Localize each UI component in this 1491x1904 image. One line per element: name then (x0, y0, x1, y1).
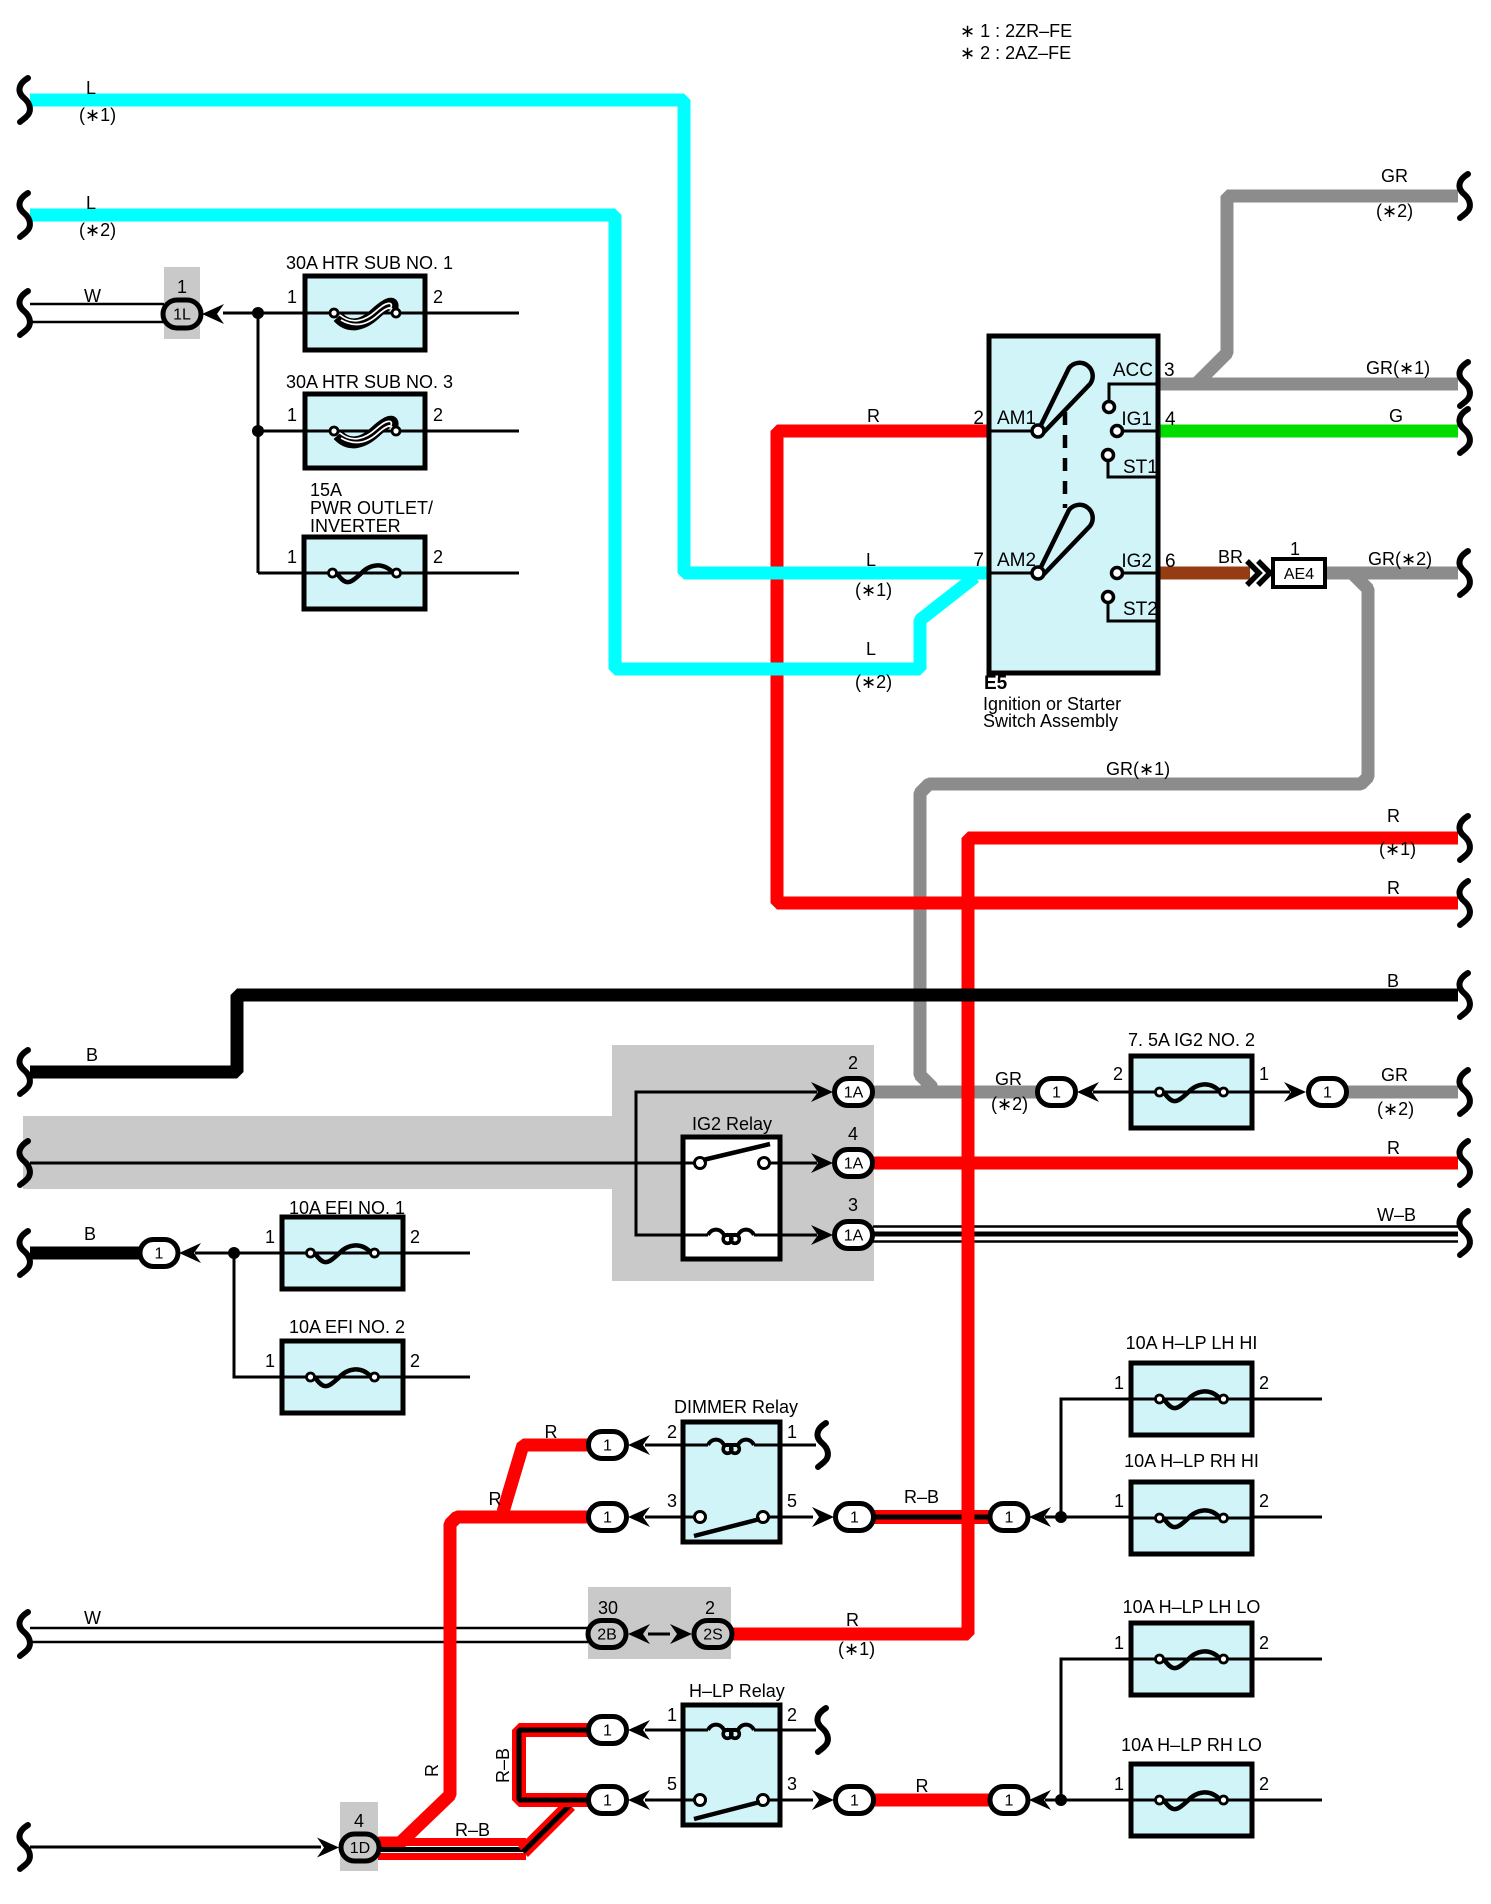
svg-text:B: B (1387, 971, 1399, 991)
arrow into connector 1D (317, 1838, 339, 1858)
svg-text:GR(∗1): GR(∗1) (1366, 358, 1430, 378)
svg-text:B: B (84, 1224, 96, 1244)
harness end W top (19, 291, 29, 335)
wire long line into IG2 relay contact (pin 4 path) (30, 1162, 683, 1165)
svg-text:AM1: AM1 (997, 408, 1036, 429)
connector 1L (163, 300, 201, 328)
svg-text:2: 2 (667, 1422, 677, 1442)
connector AE4 (1273, 559, 1325, 587)
svg-text:(∗1): (∗1) (838, 1639, 875, 1659)
relay H-LP Relay (683, 1705, 780, 1825)
connector 1 (GR *2 right) (1309, 1079, 1347, 1106)
connector 1 (R-B to fuses) (990, 1504, 1028, 1531)
wire fuse EFI NO.2 output (402, 1376, 470, 1379)
connector 1 (GR *2 left) (1038, 1079, 1076, 1106)
switch movable contact AM2 (1040, 505, 1093, 573)
wire 7.5A fuse pin 2 lead (1093, 1091, 1131, 1094)
junction-block shading band (left) (23, 1116, 612, 1189)
wire H-LP relay pin 3 lead (780, 1799, 813, 1802)
switch ACC terminal (1109, 384, 1158, 402)
svg-text:R: R (916, 1776, 929, 1796)
svg-text:L: L (866, 550, 876, 570)
svg-text:R: R (422, 1764, 442, 1777)
svg-text:15A: 15A (310, 480, 342, 500)
wire R-B from DIMMER relay pin 5 (872, 1510, 991, 1524)
svg-text:2: 2 (410, 1227, 420, 1247)
wire H-LP relay pin 5 lead (645, 1799, 683, 1802)
svg-text:30A HTR SUB NO. 3: 30A HTR SUB NO. 3 (286, 372, 453, 392)
harness end R (1459, 881, 1469, 925)
svg-text:2: 2 (1259, 1373, 1269, 1393)
svg-text:1: 1 (1114, 1633, 1124, 1653)
svg-text:10A H–LP LH LO: 10A H–LP LH LO (1123, 1597, 1261, 1617)
svg-text:R–B: R–B (455, 1820, 490, 1840)
svg-text:2: 2 (433, 287, 443, 307)
wire GR(*1) branch down to IG2 relay pin 2 (920, 573, 1368, 1092)
wire 7.5A fuse pin 1 lead (1252, 1091, 1290, 1094)
svg-text:GR(∗2): GR(∗2) (1368, 549, 1432, 569)
junction (HTR branch top) (252, 307, 264, 319)
svg-text:2: 2 (433, 547, 443, 567)
wire fuse HTR SUB NO.3 output (425, 430, 519, 433)
wire branch down to fuse EFI NO.2 (234, 1253, 282, 1377)
svg-text:4: 4 (848, 1124, 858, 1144)
fuse 10A EFI NO. 1 (282, 1217, 403, 1289)
svg-text:1: 1 (1005, 1793, 1014, 1810)
harness end G (1459, 409, 1469, 453)
wire fuse H-LP LH HI output (1252, 1398, 1322, 1401)
svg-text:2: 2 (1259, 1491, 1269, 1511)
fuse 30A HTR SUB NO. 3 (305, 394, 425, 468)
harness end B EFI (19, 1231, 29, 1275)
svg-text:2: 2 (1259, 1774, 1269, 1794)
svg-text:1: 1 (603, 1723, 612, 1740)
wire IG2 relay pin 2 branch (636, 1092, 817, 1235)
arrow into connector 2B (628, 1624, 650, 1644)
wire B to fuse EFI connector 1 (30, 1247, 142, 1260)
svg-text:2: 2 (1259, 1633, 1269, 1653)
wire to fuse H-LP RH LO with branch to LH LO (1045, 1659, 1131, 1800)
wire GR (*2) branch up to top right edge (1196, 196, 1458, 384)
wire to fuse H-LP RH HI with branch to LH HI (1045, 1399, 1131, 1517)
svg-text:3: 3 (848, 1195, 858, 1215)
wire from connector 1L to fuse HTR SUB NO.1 (223, 312, 305, 315)
svg-text:ST2: ST2 (1123, 599, 1158, 620)
svg-text:R: R (867, 406, 880, 426)
fuse 10A H-LP LH LO (1131, 1623, 1252, 1695)
svg-text:1: 1 (1290, 539, 1300, 559)
svg-text:GR(∗1): GR(∗1) (1106, 759, 1170, 779)
svg-text:1: 1 (667, 1705, 677, 1725)
svg-text:30: 30 (598, 1598, 618, 1618)
wire L (*2) from left edge to ignition switch AM2 (30, 215, 975, 669)
harness end R mid (1459, 1141, 1469, 1185)
svg-text:R: R (545, 1422, 558, 1442)
svg-text:(∗2): (∗2) (1377, 1099, 1414, 1119)
svg-text:2: 2 (848, 1053, 858, 1073)
wire GR between IG2 relay pin 2 and connector 1 (872, 1086, 1038, 1099)
arrow into connector 2S (670, 1624, 692, 1644)
wire R-B loop H-LP relay pins 1 and 5 (519, 1730, 589, 1800)
svg-text:2: 2 (973, 408, 984, 429)
wire between connectors 2B and 2S (648, 1633, 670, 1636)
svg-text:∗ 2 : 2AZ–FE: ∗ 2 : 2AZ–FE (960, 43, 1071, 63)
harness end L (*2) (19, 193, 29, 237)
wire R from H-LP relay pin 3 (872, 1794, 991, 1807)
junction (H-LP LO fuses) (1055, 1794, 1067, 1806)
svg-text:3: 3 (787, 1774, 797, 1794)
svg-text:2: 2 (787, 1705, 797, 1725)
junction-block shading for connector 1D (340, 1802, 378, 1871)
fuse 30A HTR SUB NO. 1 (305, 276, 425, 350)
svg-text:R: R (1387, 878, 1400, 898)
relay DIMMER Relay (683, 1422, 780, 1542)
wire fuse H-LP RH HI output (1252, 1516, 1322, 1519)
fuse 10A H-LP LH HI (1131, 1363, 1252, 1435)
arrow into connector 1 (EFI feed) (179, 1243, 201, 1263)
svg-text:(∗1): (∗1) (855, 580, 892, 600)
svg-text:4: 4 (354, 1811, 364, 1831)
svg-text:PWR OUTLET/: PWR OUTLET/ (310, 498, 433, 518)
harness end H-LP pin 2 (817, 1708, 827, 1752)
junction (EFI branch) (228, 1247, 240, 1259)
junction-block shading for connectors 2B/2S (588, 1587, 731, 1659)
arrow into connector 1A pin 2 (811, 1082, 833, 1102)
fuse 10A H-LP RH LO (1131, 1764, 1252, 1836)
wire R-B diagonal up to H-LP relay pin 5 (523, 1805, 570, 1852)
svg-text:1: 1 (1259, 1064, 1269, 1084)
svg-text:1: 1 (177, 277, 187, 297)
svg-text:1: 1 (1005, 1510, 1014, 1527)
wire fuse HTR SUB NO.1 output (425, 312, 519, 315)
switch ST2 terminal (1108, 602, 1156, 621)
wire GR(*2) from connector AE4 to right edge (1325, 567, 1458, 580)
arrow into connector 1 (GR *2 left) (1077, 1082, 1099, 1102)
wire L (*1) from left edge to ignition switch AM2 (30, 100, 989, 573)
harness end DIMMER pin 1 (817, 1423, 827, 1467)
svg-text:R: R (846, 1610, 859, 1630)
relay IG2 Relay (683, 1137, 780, 1259)
arrow into connector 1L (202, 304, 224, 324)
svg-text:2: 2 (705, 1598, 715, 1618)
wire R from DIMMER relay pin 3 down to connector 1D (378, 1517, 589, 1843)
wire R-B from connector 1D (triple band) (378, 1838, 526, 1846)
svg-text:1: 1 (265, 1227, 275, 1247)
svg-text:4: 4 (1165, 409, 1176, 430)
svg-text:Switch Assembly: Switch Assembly (983, 711, 1118, 731)
connector 1 (DIMMER pin 3) (589, 1504, 627, 1531)
svg-text:(∗1): (∗1) (1379, 839, 1416, 859)
fuse 15A PWR OUTLET/INVERTER (304, 537, 425, 609)
junction-block shading box around IG2 Relay (612, 1045, 874, 1281)
harness end R (*1) (1459, 816, 1469, 860)
svg-text:R: R (489, 1489, 502, 1509)
wire fuse EFI NO.1 output (402, 1252, 470, 1255)
harness end GR (*2) mid (1459, 1070, 1469, 1114)
harness end GR(*2) (1459, 551, 1469, 595)
switch gang dashed line (1063, 412, 1068, 508)
svg-text:GR: GR (1381, 1065, 1408, 1085)
connector 1 (H-LP pin 5) (589, 1787, 627, 1814)
svg-text:(∗1): (∗1) (79, 105, 116, 125)
svg-text:W–B: W–B (1377, 1205, 1416, 1225)
wire fuse H-LP LH LO output (1252, 1658, 1322, 1661)
wire into connector 1D (30, 1846, 321, 1849)
wire IG2 relay contact to connector 1A pin 4 (780, 1162, 817, 1165)
svg-text:BR: BR (1218, 547, 1243, 567)
wire fuse H-LP RH LO output (1252, 1799, 1322, 1802)
svg-text:(∗2): (∗2) (855, 672, 892, 692)
svg-text:1: 1 (287, 287, 297, 307)
double chevron into AE4 (1247, 561, 1270, 585)
wire W-B from IG2 relay pin 3 to right edge (873, 1225, 1458, 1228)
connector 1 (DIMMER pin 5 out) (836, 1504, 874, 1531)
connector 1D (341, 1834, 379, 1861)
svg-text:GR: GR (995, 1069, 1022, 1089)
svg-text:R: R (1387, 806, 1400, 826)
harness end L (*1) (19, 78, 29, 122)
connector 2B (588, 1621, 626, 1648)
svg-text:1: 1 (603, 1438, 612, 1455)
svg-text:1: 1 (287, 547, 297, 567)
svg-text:B: B (86, 1045, 98, 1065)
svg-text:L: L (86, 193, 96, 213)
svg-text:2S: 2S (703, 1627, 723, 1644)
svg-text:3: 3 (1164, 360, 1175, 381)
wire R (*1) from right edge down to connector 2S (732, 838, 1458, 1634)
arrow into connector 1A pin 4 (811, 1153, 833, 1173)
wire W (white) lower left to connector 2B (30, 1627, 588, 1630)
wire DIMMER relay pin 3 lead (645, 1516, 683, 1519)
svg-text:5: 5 (667, 1774, 677, 1794)
connector 1 (R to fuses) (990, 1787, 1028, 1814)
svg-text:5: 5 (787, 1491, 797, 1511)
wire R from ignition switch AM1 down and to right edge (777, 431, 1458, 903)
switch movable contact AM1 (1040, 363, 1093, 431)
svg-text:IG2 Relay: IG2 Relay (692, 1114, 772, 1134)
wire B from left edge to right edge (30, 995, 1458, 1072)
svg-text:1: 1 (1052, 1085, 1061, 1102)
junction-block shading for connector 1L (164, 267, 200, 339)
junction (H-LP HI fuses) (1055, 1511, 1067, 1523)
fuse 10A H-LP RH HI (1131, 1482, 1252, 1554)
svg-text:1: 1 (850, 1510, 859, 1527)
harness end IG2 line (19, 1141, 29, 1185)
connector 1 (H-LP pin 3 out) (836, 1787, 874, 1814)
arrow into connector 1 (H-LP pin 1) (628, 1720, 650, 1740)
wire H-LP relay pin 2 lead (780, 1729, 816, 1732)
svg-text:R–B: R–B (904, 1487, 939, 1507)
arrow into connector 1 (R to fuses) (1029, 1790, 1051, 1810)
harness end W bottom (19, 1612, 29, 1656)
svg-text:1A: 1A (844, 1156, 864, 1173)
svg-text:∗ 1 : 2ZR–FE: ∗ 1 : 2ZR–FE (960, 21, 1072, 41)
wire DIMMER relay pin 2 lead (645, 1444, 683, 1447)
wire branch down to HTR SUB NO.3 and 15A (258, 313, 305, 573)
svg-text:3: 3 (667, 1491, 677, 1511)
wire GR (*2) from fuse IG2 NO.2 to right edge (1347, 1086, 1458, 1099)
svg-text:10A EFI NO. 2: 10A EFI NO. 2 (289, 1317, 405, 1337)
switch ST1 terminal (1108, 460, 1156, 477)
connector 1A pin 4 (835, 1150, 873, 1177)
connector 1 (DIMMER pin 2) (589, 1432, 627, 1459)
connector 1A pin 2 (835, 1079, 873, 1106)
svg-text:1: 1 (603, 1510, 612, 1527)
svg-text:IG1: IG1 (1121, 409, 1152, 430)
svg-text:R–B: R–B (493, 1748, 513, 1783)
svg-text:E5: E5 (984, 673, 1008, 694)
switch IG2 terminal (1122, 572, 1158, 575)
harness end GR(*1) (1459, 362, 1469, 406)
svg-text:1: 1 (1114, 1774, 1124, 1794)
svg-text:1: 1 (155, 1246, 164, 1263)
svg-text:1: 1 (603, 1793, 612, 1810)
svg-text:2: 2 (410, 1351, 420, 1371)
connector 1 (EFI feed) (140, 1240, 178, 1267)
wire DIMMER relay pin 1 lead (780, 1444, 816, 1447)
svg-text:(∗2): (∗2) (991, 1094, 1028, 1114)
wire R from DIMMER relay pin 2 (503, 1445, 589, 1512)
harness end GR (*2) top (1459, 174, 1469, 218)
wire BR from ignition switch IG2 to connector AE4 (1158, 567, 1250, 580)
harness end B right (1459, 973, 1469, 1017)
svg-text:1: 1 (287, 405, 297, 425)
arrow into connector 1 (DIMMER pin 2) (628, 1435, 650, 1455)
svg-text:ACC: ACC (1113, 360, 1153, 381)
svg-text:1: 1 (1323, 1085, 1332, 1102)
wire G from ignition switch IG1 to right edge (1158, 425, 1458, 438)
svg-text:10A H–LP RH HI: 10A H–LP RH HI (1124, 1451, 1259, 1471)
harness end W-B (1459, 1211, 1469, 1255)
svg-text:2: 2 (433, 405, 443, 425)
arrow into connector 1 (DIMMER pin 5 out) (812, 1507, 834, 1527)
svg-text:(∗2): (∗2) (1376, 201, 1413, 221)
svg-text:10A H–LP LH HI: 10A H–LP LH HI (1126, 1333, 1258, 1353)
fuse 7.5A IG2 NO. 2 (1131, 1056, 1252, 1128)
wire W (white) upper left (30, 303, 164, 306)
wire from connector 1 to fuse EFI NO.1 (195, 1252, 282, 1255)
connector 2S (694, 1621, 732, 1648)
svg-text:L: L (86, 78, 96, 98)
svg-text:DIMMER Relay: DIMMER Relay (674, 1397, 798, 1417)
wire IG2 relay coil to connector 1A pin 3 (780, 1234, 817, 1237)
svg-text:G: G (1389, 406, 1403, 426)
svg-text:1: 1 (787, 1422, 797, 1442)
arrow into connector 1 (R-B to fuses) (1029, 1507, 1051, 1527)
svg-text:W: W (84, 286, 101, 306)
wire R from IG2 relay pin 4 to right edge (872, 1157, 1458, 1170)
arrow into connector 1 (GR *2 right) (1284, 1082, 1306, 1102)
svg-text:7. 5A IG2 NO. 2: 7. 5A IG2 NO. 2 (1128, 1030, 1255, 1050)
svg-text:10A EFI NO. 1: 10A EFI NO. 1 (289, 1198, 405, 1218)
harness end B (19, 1050, 29, 1094)
svg-text:L: L (866, 639, 876, 659)
connector 1A pin 3 (835, 1222, 873, 1249)
svg-text:1: 1 (265, 1351, 275, 1371)
svg-text:2B: 2B (597, 1627, 617, 1644)
svg-text:10A H–LP RH LO: 10A H–LP RH LO (1121, 1735, 1262, 1755)
svg-text:1: 1 (1114, 1373, 1124, 1393)
svg-text:30A HTR SUB NO. 1: 30A HTR SUB NO. 1 (286, 253, 453, 273)
svg-text:7: 7 (973, 550, 984, 571)
svg-text:2: 2 (1113, 1064, 1123, 1084)
connector 1 (H-LP pin 1) (589, 1717, 627, 1744)
fuse 10A EFI NO. 2 (282, 1341, 403, 1413)
svg-text:6: 6 (1165, 551, 1176, 572)
svg-text:AE4: AE4 (1284, 566, 1314, 583)
svg-text:R: R (1387, 1138, 1400, 1158)
svg-text:ST1: ST1 (1123, 457, 1158, 478)
svg-text:AM2: AM2 (997, 550, 1036, 571)
wire H-LP relay pin 1 lead (645, 1729, 683, 1732)
ignition or starter switch assembly E5 (989, 336, 1158, 673)
svg-text:1L: 1L (173, 307, 191, 324)
harness end 1D line (19, 1825, 29, 1869)
arrow into connector 1 (DIMMER pin 3) (628, 1507, 650, 1527)
wire GR(*1) from ignition switch ACC to right edge (1158, 378, 1458, 391)
svg-text:1: 1 (1114, 1491, 1124, 1511)
switch IG1 terminal (1122, 430, 1158, 433)
svg-text:H–LP Relay: H–LP Relay (689, 1681, 785, 1701)
svg-text:W: W (84, 1608, 101, 1628)
svg-text:INVERTER: INVERTER (310, 516, 401, 536)
svg-text:1D: 1D (350, 1840, 370, 1857)
svg-text:1: 1 (850, 1793, 859, 1810)
svg-text:IG2: IG2 (1121, 551, 1152, 572)
arrow into connector 1 (H-LP pin 5) (628, 1790, 650, 1810)
svg-text:GR: GR (1381, 166, 1408, 186)
svg-text:1A: 1A (844, 1228, 864, 1245)
wire fuse 15A output (425, 572, 519, 575)
junction (HTR branch mid) (252, 425, 264, 437)
arrow into connector 1A pin 3 (811, 1225, 833, 1245)
svg-text:1A: 1A (844, 1085, 864, 1102)
wire DIMMER relay pin 5 lead (780, 1516, 813, 1519)
arrow into connector 1 (H-LP pin 3 out) (812, 1790, 834, 1810)
svg-text:(∗2): (∗2) (79, 220, 116, 240)
